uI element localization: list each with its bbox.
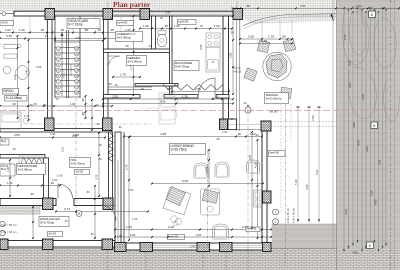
- svg-text:1.70: 1.70: [268, 35, 274, 39]
- pier living east mid: [263, 191, 272, 203]
- svg-text:2.55: 2.55: [195, 87, 201, 91]
- svg-text:S=6.75mp: S=6.75mp: [175, 64, 189, 68]
- living chair 1: [194, 163, 208, 178]
- svg-text:.90: .90: [230, 117, 234, 121]
- window label hp living south: [168, 235, 185, 240]
- right band dash-dot line: [390, 0, 392, 270]
- svg-text:S=14.55mp: S=14.55mp: [6, 96, 23, 100]
- svg-text:4.85: 4.85: [374, 199, 378, 205]
- svg-text:.60: .60: [164, 24, 168, 28]
- pier top wall 2: [103, 9, 113, 20]
- dimension chain top mid: [140, 28, 232, 30]
- svg-text:3.02: 3.02: [348, 60, 352, 66]
- window glazing hall south: [8, 200, 42, 202]
- right band survey lines: [343, 8, 345, 252]
- room label DEBARA: [127, 56, 147, 66]
- svg-text:.15: .15: [97, 28, 101, 32]
- svg-text:2.55: 2.55: [112, 95, 118, 99]
- room label TERASA: [265, 93, 289, 104]
- svg-text:S=1.90mp: S=1.90mp: [117, 35, 131, 39]
- vertical chain casa scarii: [133, 16, 135, 95]
- svg-text:=0.00: =0.00: [1, 20, 8, 24]
- pier biro wall left: [45, 118, 55, 131]
- terrain contour curves: [343, 6, 399, 121]
- living chair south: [213, 224, 229, 239]
- depozitare east wall: [44, 158, 49, 199]
- biro sofa: [0, 112, 21, 129]
- right band thin line: [394, 0, 396, 270]
- room label ZONA ACCES: [39, 217, 69, 227]
- svg-text:3 cb + 55 cm: 3 cb + 55 cm: [286, 208, 290, 223]
- biro side table: [23, 118, 29, 124]
- pier access zone left: [0, 239, 8, 250]
- svg-text:1.00: 1.00: [143, 24, 149, 28]
- svg-text:3.10: 3.10: [13, 74, 17, 80]
- svg-text:.95: .95: [125, 44, 129, 48]
- kitchen south wall east part: [216, 95, 229, 99]
- svg-text:20: 20: [110, 16, 113, 20]
- svg-text:.90: .90: [30, 192, 34, 196]
- ct room south wall: [104, 49, 173, 53]
- svg-text:.95: .95: [81, 112, 85, 116]
- svg-text:7.93: 7.93: [352, 251, 358, 255]
- svg-text:5.01: 5.01: [378, 159, 382, 165]
- vertical chain zona acces: [32, 207, 34, 238]
- kitchen south wall west part: [164, 95, 198, 99]
- svg-text:S=2.50mp: S=2.50mp: [128, 59, 142, 63]
- living desk hatch square: [166, 187, 186, 206]
- svg-text:S=3.75mp: S=3.75mp: [40, 220, 54, 224]
- svg-text:1.90: 1.90: [70, 102, 76, 106]
- grid bubble left b: [0, 230, 5, 235]
- kitchen sink: [208, 60, 219, 71]
- svg-text:.15: .15: [44, 34, 48, 38]
- svg-text:.85: .85: [246, 4, 250, 8]
- svg-text:2.73: 2.73: [64, 207, 70, 211]
- grid bubble left a: [0, 221, 5, 226]
- svg-text:7.00: 7.00: [311, 115, 315, 121]
- svg-text:4.25: 4.25: [253, 162, 257, 168]
- biro table diamond: [15, 65, 29, 79]
- svg-text:.60: .60: [211, 97, 215, 101]
- chain extension lines top left: [12, 16, 14, 33]
- grid bubble 2: [273, 219, 279, 225]
- kitchen door arc: [199, 78, 216, 95]
- svg-text:2.00: 2.00: [196, 233, 202, 237]
- svg-text:3 cb = 55 cm: 3 cb = 55 cm: [1, 223, 17, 227]
- svg-text:S=9.70mp: S=9.70mp: [71, 161, 85, 165]
- svg-text:2 cb + 30 cm: 2 cb + 30 cm: [292, 208, 296, 223]
- svg-text:hp=0.90: hp=0.90: [270, 150, 280, 154]
- left cropped label 2: [0, 164, 15, 176]
- svg-text:2.05: 2.05: [14, 133, 20, 137]
- hall south wall: [0, 199, 56, 206]
- left cropped label 1: [0, 139, 9, 145]
- stair top chain: [55, 40, 103, 42]
- svg-text:10x17.5: 10x17.5: [63, 68, 66, 78]
- living chair 2: [215, 162, 229, 177]
- band edge arrow: [331, 14, 335, 23]
- svg-text:BIROU: BIROU: [4, 89, 15, 93]
- terrace north roof arc: [243, 14, 337, 26]
- svg-text:2.70: 2.70: [95, 174, 99, 180]
- svg-text:S=21.65mp: S=21.65mp: [266, 96, 282, 100]
- svg-text:4.85: 4.85: [305, 184, 309, 190]
- vertical chain living east: [257, 140, 259, 238]
- svg-text:7.93: 7.93: [344, 209, 348, 215]
- svg-text:.90: .90: [29, 103, 33, 107]
- biro chair 1: [3, 66, 11, 74]
- vertical chain zona acces east: [94, 186, 96, 238]
- dimension chain kitchen mid: [103, 98, 233, 100]
- svg-text:.30: .30: [96, 122, 100, 126]
- vertical chain living west: [128, 137, 130, 240]
- bottom terrain band: [0, 249, 400, 270]
- window label east: [269, 151, 286, 157]
- living cabinet east: [201, 189, 220, 215]
- svg-text:.60: .60: [216, 137, 220, 141]
- svg-text:5.01: 5.01: [315, 169, 319, 175]
- dimension chain top left 2nd: [0, 38, 133, 40]
- svg-text:.30: .30: [230, 31, 234, 35]
- hall landing wall: [108, 86, 152, 88]
- grid bubble B: [245, 107, 251, 113]
- svg-text:1.75: 1.75: [120, 73, 126, 77]
- svg-text:1.00: 1.00: [214, 24, 220, 28]
- svg-text:2.00: 2.00: [205, 166, 209, 172]
- ct boiler: [157, 34, 167, 47]
- hall west wall lower: [109, 132, 113, 199]
- window label hp ct: [117, 21, 134, 26]
- pier living sw corner: [115, 243, 127, 252]
- room label CAMERA CT: [116, 32, 143, 42]
- svg-text:2.65: 2.65: [199, 44, 203, 50]
- svg-text:B: B: [78, 212, 80, 216]
- pier access zone right: [102, 239, 113, 250]
- extension lines through top stipple: [49, 2, 51, 12]
- vertical chain depozitare: [9, 160, 11, 196]
- svg-text:2.95: 2.95: [36, 65, 42, 69]
- dimension chain debara: [113, 76, 140, 78]
- vertical chain living interior: [208, 150, 210, 186]
- svg-text:.30: .30: [243, 101, 247, 105]
- right terrain band: [337, 0, 400, 270]
- left edge dashed crop line: [0, 43, 16, 45]
- svg-text:.95: .95: [40, 28, 44, 32]
- dimension chain living top: [124, 136, 262, 138]
- room label BUCATARIE: [174, 61, 199, 71]
- svg-text:1.52: 1.52: [343, 34, 347, 40]
- svg-text:1.00: 1.00: [174, 24, 180, 28]
- kitchen counter west: [159, 93, 175, 124]
- living desk: [163, 187, 191, 215]
- stair hall west wall: [48, 16, 53, 118]
- top terrain stipple band: [0, 0, 337, 11]
- pier kitchen south: [220, 119, 228, 130]
- ct room east wall: [152, 16, 156, 49]
- dimension chain living mid: [152, 183, 263, 185]
- svg-text:±0.00: ±0.00: [270, 110, 278, 114]
- biro desk: [4, 45, 18, 49]
- centerline terrace east: [285, 104, 287, 268]
- pier living south 1: [140, 243, 153, 252]
- room label LIVING DINING: [170, 144, 206, 155]
- svg-text:.60: .60: [237, 132, 241, 136]
- porch paving left: [0, 205, 40, 215]
- stair hall east wall: [104, 16, 109, 129]
- dimension chain biro south: [0, 105, 112, 107]
- svg-text:.15: .15: [166, 87, 170, 91]
- svg-text:1.00: 1.00: [222, 130, 228, 134]
- svg-text:.60: .60: [282, 35, 287, 39]
- svg-text:2.65: 2.65: [229, 52, 233, 58]
- bottom band top edge line: [0, 248, 337, 250]
- window glazing lines top wall: [55, 12, 104, 14]
- svg-text:.15: .15: [140, 87, 144, 91]
- top exterior wall: [14, 11, 242, 16]
- kitchen stove: [206, 33, 220, 47]
- pier living se corner: [263, 243, 272, 252]
- pier biro wall right: [103, 118, 113, 131]
- band edge white strip line: [332, 0, 334, 249]
- svg-text:4.35: 4.35: [160, 132, 166, 136]
- svg-text:1.80: 1.80: [117, 234, 123, 238]
- svg-text:.95: .95: [84, 28, 88, 32]
- stipple wedge above terrace: [242, 11, 337, 24]
- tv bench east wall: [254, 190, 262, 207]
- pier living south 2: [197, 243, 210, 252]
- svg-text:.60: .60: [98, 157, 102, 161]
- svg-text:.60: .60: [90, 232, 94, 236]
- window label hp living bottom2: [246, 227, 260, 232]
- stair tread number circles left: [56, 47, 60, 51]
- pier terrace corner: [233, 9, 243, 20]
- svg-text:±0.00: ±0.00: [49, 232, 57, 236]
- svg-text:.15: .15: [98, 143, 102, 147]
- svg-text:1.00: 1.00: [5, 28, 11, 32]
- vertical chain hall: [98, 133, 100, 196]
- staircase treads: [55, 41, 80, 43]
- svg-text:4.93: 4.93: [357, 140, 361, 146]
- window label hp kitchen: [178, 20, 197, 25]
- staircase arrow: [61, 34, 63, 96]
- svg-text:.15: .15: [12, 147, 16, 151]
- living chair 3: [247, 160, 260, 173]
- svg-text:4.00: 4.00: [361, 94, 365, 100]
- svg-text:2.51: 2.51: [300, 4, 306, 8]
- living west wall: [115, 132, 121, 243]
- right band marker box top: [369, 11, 376, 18]
- svg-text:.95: .95: [110, 28, 114, 32]
- vertical chain kitchen east: [232, 16, 234, 94]
- dotted lines east of terrace: [268, 121, 336, 123]
- svg-text:17.5x27.5: 17.5x27.5: [70, 63, 73, 75]
- svg-text:20: 20: [160, 16, 163, 20]
- centerline hall: [75, 98, 77, 212]
- kitchen west wall: [170, 16, 173, 96]
- svg-text:.15: .15: [33, 102, 37, 106]
- svg-text:1.15: 1.15: [24, 114, 30, 118]
- pier access zone mid: [43, 239, 54, 250]
- svg-text:1.20: 1.20: [132, 217, 138, 221]
- svg-text:3.95: 3.95: [248, 154, 252, 160]
- svg-text:6: 6: [369, 244, 371, 248]
- svg-text:hp=0.90: hp=0.90: [179, 19, 189, 23]
- living flower symbol: [171, 216, 182, 226]
- pier hall south left: [43, 198, 54, 210]
- svg-text:hp=0.90: hp=0.90: [118, 20, 128, 24]
- top dimension chain: [240, 7, 399, 9]
- dimension chain hol upper: [0, 137, 105, 139]
- kitchen dashed cabinets: [140, 107, 159, 109]
- living east wall: [262, 131, 267, 243]
- pier living ne: [261, 121, 271, 131]
- dimension chain terrace top: [240, 38, 292, 40]
- svg-text:1.40: 1.40: [19, 28, 25, 32]
- stair tread number circles right: [75, 47, 79, 51]
- svg-text:2.92: 2.92: [348, 82, 352, 88]
- living north pier tie line: [228, 129, 261, 131]
- depozitare north wall: [0, 155, 45, 159]
- svg-text:2.05: 2.05: [75, 36, 81, 40]
- grid bubble hall south: [76, 211, 82, 217]
- svg-text:Plan parter: Plan parter: [113, 0, 151, 9]
- svg-text:S=2.05mp: S=2.05mp: [18, 167, 32, 171]
- vertical chain stair east: [85, 96, 87, 118]
- svg-text:5.39: 5.39: [370, 190, 374, 196]
- svg-text:.15: .15: [55, 97, 59, 101]
- dimension chain living bottom 2: [115, 236, 271, 238]
- terrace west edge line: [236, 16, 238, 131]
- terrace chair w: [244, 68, 257, 81]
- right band marker box bottom: [367, 242, 374, 249]
- vertical chain hol east: [91, 100, 93, 130]
- long dash-dot centerline mid: [30, 123, 152, 125]
- red section line horizontal: [0, 110, 400, 112]
- svg-text:4.30: 4.30: [261, 39, 267, 43]
- kitchen counter: [206, 47, 220, 72]
- sawtooth symbol along debara wall: [163, 85, 223, 91]
- grid line stub top left: [0, 13, 15, 15]
- window glazing living south: [153, 244, 198, 246]
- dimension chain hall bottom: [56, 211, 148, 213]
- svg-text:.15: .15: [42, 103, 46, 107]
- vertical chain left of plan: [17, 36, 19, 118]
- svg-text:5.39: 5.39: [294, 179, 298, 185]
- svg-text:.45: .45: [81, 98, 85, 102]
- vertical chain biro west: [28, 40, 30, 120]
- grid bubble 1: [273, 209, 279, 215]
- vertical chain terrace south: [251, 132, 253, 228]
- paving east of living room: [272, 224, 337, 249]
- svg-text:S=35.75mp: S=35.75mp: [171, 148, 188, 152]
- debara hall wall: [104, 95, 141, 99]
- svg-text:.95: .95: [60, 28, 64, 32]
- svg-text:±0.00: ±0.00: [76, 170, 84, 174]
- dimension chain top left: [0, 32, 133, 34]
- svg-text:.60: .60: [215, 95, 219, 99]
- staircase rails: [54, 16, 56, 98]
- pier living south 3: [220, 243, 233, 252]
- kitchen east wall: [223, 16, 229, 119]
- insulation zigzag on hall wall: [108, 133, 113, 162]
- svg-text:1.30: 1.30: [182, 95, 188, 99]
- svg-text:.60: .60: [118, 125, 122, 129]
- kitchen chain 2.55: [172, 91, 229, 93]
- svg-text:1.80: 1.80: [130, 233, 136, 237]
- svg-text:.15: .15: [114, 83, 118, 87]
- ct door arc: [108, 56, 120, 68]
- room label HOL: [70, 158, 91, 168]
- svg-text:.76: .76: [199, 24, 203, 28]
- svg-text:hp=0.90: hp=0.90: [169, 234, 179, 238]
- terrace chair s: [280, 87, 292, 99]
- gutter vertical marks: [297, 107, 299, 222]
- right band left edge line: [336, 0, 338, 270]
- room label DEPOZITARE: [17, 164, 46, 175]
- svg-text:.60: .60: [86, 190, 90, 194]
- pier top wall 3: [140, 9, 150, 20]
- svg-text:S=7.15mp: S=7.15mp: [68, 23, 83, 27]
- right band marker box B: [371, 122, 378, 129]
- svg-text:1.50: 1.50: [50, 132, 56, 136]
- pier top wall 1: [45, 9, 55, 20]
- centerline terrace west: [247, 104, 249, 252]
- entry door arc: [101, 206, 116, 221]
- svg-text:4.80: 4.80: [365, 146, 369, 152]
- axis lines into bottom band: [47, 251, 49, 270]
- svg-text:.15: .15: [64, 219, 68, 223]
- centerline living: [207, 150, 209, 248]
- svg-text:1.10: 1.10: [61, 146, 65, 152]
- svg-text:.90: .90: [12, 102, 16, 106]
- svg-text:1.55: 1.55: [165, 11, 171, 15]
- access zone bottom wall: [0, 241, 117, 248]
- svg-text:2 cb = 30 cm: 2 cb = 30 cm: [1, 230, 17, 234]
- svg-text:2.00: 2.00: [168, 225, 174, 229]
- svg-text:.10: .10: [95, 103, 99, 107]
- depozitare hanger zigzag: [21, 158, 42, 164]
- svg-text:2.40: 2.40: [24, 69, 28, 75]
- pier hall south right: [103, 198, 113, 210]
- terrace round table: [263, 52, 291, 80]
- svg-text:2.70: 2.70: [125, 164, 129, 170]
- svg-text:1.60: 1.60: [52, 178, 58, 182]
- terrace chair ne: [283, 39, 296, 52]
- terrace chair nw: [257, 40, 269, 52]
- svg-text:1.60: 1.60: [57, 174, 63, 178]
- dimension chain living bottom: [115, 229, 271, 231]
- grid bubble top left: [2, 12, 6, 16]
- svg-text:5mp: 5mp: [1, 139, 7, 143]
- living bottom wall: [115, 243, 271, 250]
- svg-text:1.50: 1.50: [128, 188, 134, 192]
- svg-text:2.00: 2.00: [190, 245, 196, 249]
- hall door arc: [58, 184, 73, 199]
- dimension chain depozitare south: [0, 185, 60, 187]
- room label BIROU: [3, 89, 19, 95]
- dashed line terrace: [280, 104, 282, 212]
- room label CASA SCARII: [67, 19, 100, 29]
- svg-text:6.05: 6.05: [182, 179, 188, 183]
- svg-text:h=2.10: h=2.10: [234, 71, 242, 74]
- svg-text:2.05: 2.05: [72, 134, 78, 138]
- svg-text:4.50: 4.50: [160, 99, 166, 103]
- biro south wall: [0, 129, 112, 133]
- svg-text:.30: .30: [255, 133, 259, 137]
- svg-text:3.02: 3.02: [356, 4, 362, 8]
- svg-text:2.00: 2.00: [248, 35, 254, 39]
